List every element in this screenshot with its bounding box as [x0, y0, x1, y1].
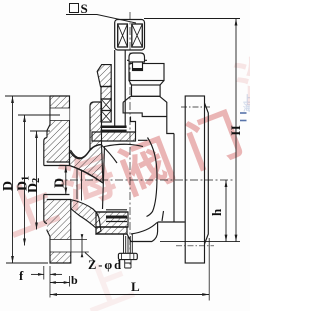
gland dome — [129, 53, 145, 62]
svg-text:L: L — [131, 279, 140, 294]
body bottom right curve — [131, 223, 157, 235]
gland rect2 — [132, 85, 161, 96]
plug bottom bands — [106, 209, 127, 211]
bottom cover hatched — [96, 212, 128, 227]
right flange — [185, 96, 204, 263]
Z-phi-d leader — [85, 253, 95, 262]
watermark red faint bottom — [69, 240, 141, 311]
body left wall hatched band — [90, 102, 102, 150]
packing follower dark bands — [101, 126, 127, 129]
bonnet base right step — [131, 117, 136, 133]
dim D line — [12, 96, 14, 263]
svg-text:b: b — [71, 273, 78, 287]
bonnet flange — [123, 96, 174, 133]
stem head X box right — [132, 24, 143, 47]
dim h line — [225, 180, 227, 242]
watermark blue column — [241, 94, 254, 112]
dim D1 line — [24, 115, 26, 246]
watermark red faint top right — [224, 33, 296, 118]
chamber top left curve — [102, 145, 118, 163]
stem head — [115, 20, 145, 51]
plug right edge — [147, 138, 158, 217]
plug left edge — [103, 146, 105, 209]
svg-text:h: h — [209, 208, 224, 216]
gland chamfer — [129, 81, 164, 86]
left flange hatch upper — [44, 96, 70, 162]
bolt hole upper (white band + lines) — [51, 108, 70, 121]
dim D bore — [65, 166, 67, 195]
drain stem threaded — [124, 234, 133, 253]
gland small block — [133, 62, 143, 71]
port top curve — [70, 166, 104, 184]
left flange section — [44, 96, 71, 263]
dim L — [50, 294, 209, 296]
plug top arc — [105, 144, 144, 146]
right flange raised face line — [205, 103, 209, 244]
body neck band above port hatched — [70, 145, 104, 184]
bottom face extension line — [160, 241, 240, 243]
svg-text:S: S — [81, 1, 88, 16]
dim b — [50, 282, 70, 284]
squareS underline and leader — [66, 15, 136, 24]
watermark red char men — [173, 90, 252, 183]
right flange bolt centerline lower — [176, 245, 214, 247]
centerline stem vertical — [129, 12, 131, 265]
drain washer — [118, 253, 137, 259]
stem column — [115, 50, 126, 126]
packing gland left hatched — [97, 65, 111, 87]
svg-text:D: D — [1, 181, 16, 191]
gland wide rect — [129, 64, 164, 81]
bonnet base hatched — [92, 132, 136, 141]
stem head X box left — [118, 24, 128, 47]
seat sleeve lines — [76, 169, 78, 200]
right flange bolt centerline upper — [181, 106, 210, 108]
plug seat line right — [138, 139, 148, 141]
watermark blue equals marks — [240, 112, 247, 114]
svg-text:f: f — [19, 268, 24, 283]
body bottom right inner vertical — [162, 211, 164, 221]
left flange hatch lower — [44, 200, 71, 264]
dim H line — [235, 19, 237, 242]
dim H top extension — [144, 18, 240, 20]
svg-text:H: H — [228, 125, 243, 135]
dim D2 line — [36, 131, 38, 230]
centerline pipe axis horizontal — [55, 179, 234, 181]
bolt hole lower (white band + lines) — [51, 240, 71, 253]
watermark red char fa — [106, 116, 185, 209]
dome base line — [127, 59, 147, 61]
watermark red char shang — [0, 158, 67, 251]
svg-text:Z - φ d: Z - φ d — [88, 258, 121, 272]
bottom cover outline — [96, 212, 152, 242]
svg-text:D: D — [53, 178, 68, 188]
port bottom curve band hatched — [71, 200, 101, 235]
dim f — [31, 273, 44, 275]
U channel top outline — [71, 150, 91, 158]
packing rings X boxes — [101, 99, 111, 111]
body top right — [152, 134, 185, 242]
squareS label — [70, 4, 79, 13]
drain nut — [125, 260, 131, 268]
dim Z-phi-d arrows — [81, 234, 83, 257]
watermark red char hai — [47, 131, 126, 224]
